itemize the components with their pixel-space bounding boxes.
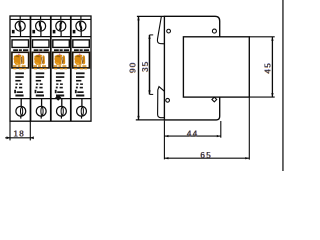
65 dimension line [164, 157, 249, 159]
pole 3 tick under screw [60, 31, 62, 37]
pole 2 indicator window frame [32, 52, 49, 68]
page right border line [282, 0, 283, 171]
pole 4 bottom terminal tick [81, 99, 83, 107]
pole 3 bottom terminal screw [57, 106, 67, 116]
right extension line [220, 121, 222, 138]
side view base body [164, 16, 219, 120]
pole 3 tick below bottom screw [60, 116, 62, 118]
pole 1 bottom terminal tick [20, 99, 22, 107]
pole 1 bottom screw slot [21, 107, 23, 115]
18 arrow right [30, 136, 34, 139]
dimension 44 [164, 121, 220, 160]
pole 4 bottom screw slot [81, 107, 83, 115]
top band inner line [10, 18, 91, 20]
svg-text:35: 35 [141, 60, 150, 72]
pole 3 top terminal screw [56, 21, 66, 31]
dimension 35 [141, 35, 153, 95]
pole 1 bottom terminal screw [16, 106, 26, 116]
pole 3 left latch square [53, 30, 56, 34]
bottom extension line (90 dim) [136, 119, 165, 121]
pole 1 tick under screw [20, 31, 22, 37]
pole 4 printed text block [75, 72, 85, 96]
front view outer box [10, 16, 91, 121]
svg-text:90: 90 [128, 61, 137, 73]
pole 3 printed text block [55, 72, 65, 96]
hole bottom-left [166, 98, 170, 102]
18 arrow left [7, 136, 11, 139]
pole 4 tick under screw [80, 31, 82, 37]
pole 1 text line under window [13, 49, 18, 51]
pole 2 orange status flag [34, 53, 47, 69]
module divider 1 [30, 16, 32, 121]
pole 1 top terminal screw [15, 21, 25, 31]
right extension line [248, 98, 250, 160]
pole 2 top terminal slot tick [40, 16, 42, 20]
44 dimension line [164, 135, 220, 137]
top DIN clip tab [157, 17, 164, 44]
pole 1 top screw slot [19, 22, 20, 30]
pole 1 tick below bottom screw [20, 116, 22, 118]
18 extension line left [9, 122, 11, 141]
dimension 65 [164, 98, 249, 160]
pole 4 text line under window [74, 49, 79, 51]
pole 4 label window [73, 40, 90, 48]
line under top terminals [10, 36, 91, 38]
front module square [183, 37, 249, 97]
pole 2 left latch square [32, 30, 35, 34]
hole top-right [212, 29, 216, 33]
hole bottom-right (diamond) [212, 97, 217, 102]
svg-text:44: 44 [187, 129, 199, 138]
pole 3 orange status flag [54, 53, 67, 69]
pole 4 top terminal screw [76, 21, 86, 31]
divider line above bottom terminals [10, 98, 91, 100]
module divider 3 [70, 16, 72, 121]
pole 3 bottom screw slot [61, 107, 63, 115]
pole 2 bottom screw slot [41, 107, 43, 115]
top extension line (90 dim) [137, 15, 165, 17]
pole 4 tick below bottom screw [81, 116, 83, 118]
pole 3 label window [53, 40, 70, 48]
bottom DIN clip tab [158, 87, 165, 118]
pole 2 bottom terminal tick [41, 99, 43, 107]
pole 4 left latch square [73, 30, 76, 34]
pole 1 indicator window frame [12, 52, 29, 68]
pole 4 top terminal slot tick [80, 16, 82, 20]
pole 3 bottom terminal tick [61, 99, 63, 107]
pole 3 top terminal slot tick [60, 16, 62, 20]
pole 1 left latch square [12, 30, 15, 34]
pole 1 label window [12, 40, 29, 48]
svg-text:65: 65 [200, 151, 212, 160]
pole 2 bottom terminal screw [36, 106, 46, 116]
pole 2 tick below bottom screw [40, 116, 42, 118]
pole 4 top screw slot [80, 22, 81, 30]
modules content drawn by template below [12, 16, 89, 118]
module divider 2 [50, 16, 52, 121]
dimension 45 [264, 37, 274, 97]
pole 2 text line under window [34, 49, 39, 51]
pole 2 label window [33, 40, 50, 48]
18 extension line right [29, 122, 31, 141]
pole 1 printed text block [14, 72, 24, 96]
18 label [13, 130, 26, 139]
pole 2 tick under screw [40, 31, 42, 37]
pole 3 top screw slot [59, 22, 62, 30]
svg-text:45: 45 [264, 62, 273, 74]
pole 2 printed text block [35, 72, 45, 96]
pole 3 text line under window [54, 49, 59, 51]
pole 1 orange status flag [13, 53, 26, 69]
pole 2 top screw slot [40, 22, 41, 30]
pole 4 indicator window frame [73, 52, 90, 68]
square top edge extension (45 dim) [249, 36, 274, 38]
pole 4 orange status flag [74, 53, 87, 69]
dimension 90 [128, 16, 139, 120]
dimension 18 [5, 122, 34, 141]
square bottom edge extension (45 dim) [249, 96, 274, 98]
hole top-left [167, 29, 171, 33]
pole 4 bottom terminal screw [77, 106, 87, 116]
18 dimension line [5, 137, 33, 139]
pole 3 indicator window frame [53, 52, 70, 68]
pole 1 top terminal slot tick [19, 16, 21, 20]
pole 3 dark diamond mark [55, 95, 61, 101]
pole 2 top terminal screw [36, 21, 46, 31]
left shared extension line [163, 121, 165, 160]
svg-text:18: 18 [14, 130, 26, 139]
